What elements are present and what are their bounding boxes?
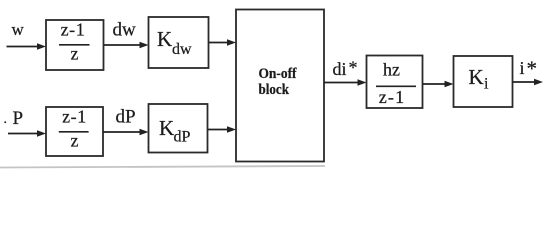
wire hz/(z-1) to Ki xyxy=(423,81,454,88)
svg-text:z-1: z-1 xyxy=(62,107,87,127)
svg-text:dw: dw xyxy=(172,41,192,58)
block Z2 (z-1)/z bottom xyxy=(46,107,103,157)
scan artifact gray line bottom xyxy=(0,166,325,168)
svg-text:On-off: On-off xyxy=(259,66,298,82)
svg-text:w: w xyxy=(12,20,25,39)
svg-text:dP: dP xyxy=(174,129,191,146)
svg-text:i: i xyxy=(520,58,525,78)
svg-text:hz: hz xyxy=(383,60,400,80)
svg-text:.: . xyxy=(4,112,8,127)
svg-text:z: z xyxy=(71,131,79,151)
block integrator hz/(z-1) xyxy=(367,56,423,109)
svg-text:K: K xyxy=(159,116,174,140)
svg-text:P: P xyxy=(13,108,24,129)
svg-text:K: K xyxy=(469,65,484,89)
block Ki gain xyxy=(454,56,513,107)
wire box Z2 to KdP xyxy=(103,129,149,136)
block Z1 (z-1)/z top xyxy=(46,20,104,70)
svg-text:*: * xyxy=(349,58,358,78)
svg-text:z: z xyxy=(71,44,79,64)
wire P input arrow xyxy=(8,130,46,137)
svg-text:K: K xyxy=(157,27,172,51)
svg-text:i: i xyxy=(484,76,489,93)
svg-text:di: di xyxy=(333,59,347,79)
block On-off xyxy=(236,10,324,162)
wire box Z1 to Kdw xyxy=(104,42,149,49)
svg-text:z-1: z-1 xyxy=(379,87,406,107)
wire w input arrow xyxy=(7,43,47,50)
block KdP gain xyxy=(149,104,208,153)
svg-text:block: block xyxy=(259,82,290,98)
svg-text:*: * xyxy=(527,57,538,81)
svg-text:z-1: z-1 xyxy=(61,20,86,40)
svg-text:dP: dP xyxy=(116,107,136,128)
block Kdw gain xyxy=(149,17,209,68)
wire Ki output arrow xyxy=(513,79,544,86)
wire Kdw to on-off block xyxy=(209,39,237,46)
wire on-off block to hz/(z-1) xyxy=(324,79,367,86)
svg-text:dw: dw xyxy=(113,20,137,41)
wire KdP to on-off block xyxy=(208,126,237,133)
